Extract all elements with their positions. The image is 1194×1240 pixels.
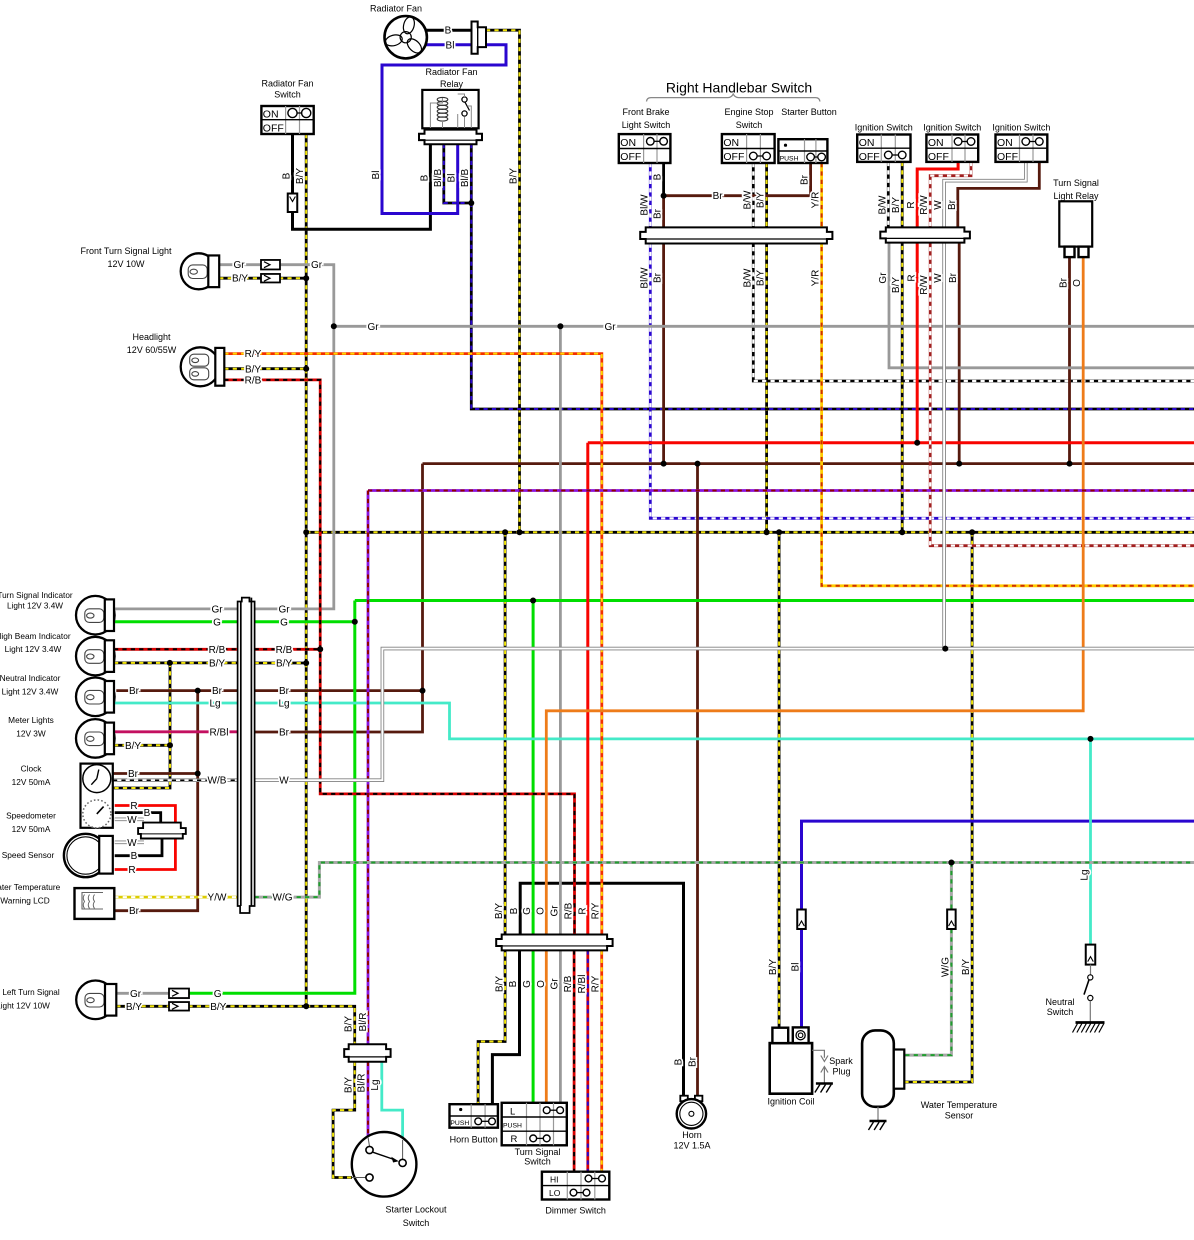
svg-text:Switch: Switch <box>274 90 301 100</box>
wire Bl/R vertical <box>367 491 370 1045</box>
svg-text:Bl: Bl <box>791 963 802 972</box>
wire Br neutral row left <box>116 689 237 692</box>
svg-text:Ignition Switch: Ignition Switch <box>992 123 1050 133</box>
wire W speed sensor <box>115 840 144 844</box>
wire Bl/R bus <box>368 489 1194 492</box>
connector bar ignition switch <box>880 227 970 242</box>
wire B/Y headlight <box>224 367 306 370</box>
junction dot <box>695 461 701 467</box>
wire Lg neutral switch <box>1089 739 1092 945</box>
svg-text:Turn Signal: Turn Signal <box>1053 178 1099 188</box>
wire W/G water temp lower <box>904 929 951 1055</box>
wire B/Y horn button feed <box>478 532 505 1104</box>
junction dot <box>303 529 309 535</box>
junction dot <box>661 193 667 199</box>
wire Bl/B bus <box>471 144 1194 409</box>
svg-text:Br: Br <box>653 272 664 283</box>
svg-text:Light Relay: Light Relay <box>1053 191 1099 201</box>
svg-text:Radiator Fan: Radiator Fan <box>370 4 422 14</box>
svg-text:B: B <box>674 1058 685 1065</box>
svg-text:Engine Stop: Engine Stop <box>724 107 773 117</box>
svg-text:Switch: Switch <box>403 1218 430 1228</box>
wire B/Y rear turn signal to connector <box>188 1006 354 1044</box>
switch starter button <box>778 139 827 163</box>
junction dot <box>530 598 536 604</box>
front turn signal bulb <box>181 253 217 289</box>
svg-text:R: R <box>128 865 135 876</box>
svg-text:B/Y: B/Y <box>276 659 292 670</box>
wire B/Y radiator fan to bus <box>486 30 520 532</box>
wire Y/W warning LCD <box>114 896 237 899</box>
svg-text:Switch: Switch <box>524 1157 551 1167</box>
svg-text:Horn Button: Horn Button <box>450 1135 498 1145</box>
svg-text:Bl/R: Bl/R <box>357 1074 368 1093</box>
svg-text:B: B <box>445 26 452 37</box>
svg-text:Br: Br <box>279 686 290 697</box>
svg-text:PUSH: PUSH <box>450 1120 469 1127</box>
svg-text:Gr: Gr <box>604 322 616 333</box>
brace right handlebar switch <box>647 94 820 102</box>
junction dot <box>303 1003 309 1009</box>
wire Bl fan loop <box>382 45 506 214</box>
wire Bl fan lead <box>425 43 473 46</box>
svg-text:Ignition Switch: Ignition Switch <box>923 123 981 133</box>
svg-text:W/G: W/G <box>940 957 951 977</box>
svg-text:B/Y: B/Y <box>495 976 506 992</box>
wire B/Y high beam left <box>114 662 238 665</box>
svg-text:Rear Left Turn Signal: Rear Left Turn Signal <box>0 988 60 997</box>
junction dot <box>468 200 474 206</box>
wire R/W ignition 2 <box>930 162 1194 546</box>
svg-text:B/Y: B/Y <box>344 1077 355 1093</box>
svg-text:R/Bl: R/Bl <box>210 727 229 738</box>
junction dot <box>303 275 309 281</box>
svg-text:OFF: OFF <box>859 151 880 163</box>
junction dot <box>420 688 426 694</box>
wire B speed sensor <box>115 839 162 856</box>
svg-text:W: W <box>279 776 289 787</box>
wire Gr bus <box>334 325 1194 328</box>
svg-text:R/B: R/B <box>563 975 574 992</box>
svg-text:B: B <box>420 174 431 181</box>
switch radiator fan <box>261 106 313 134</box>
inline connector front signal Gr <box>261 260 280 270</box>
junction dot <box>303 660 309 666</box>
svg-text:Light Switch: Light Switch <box>622 120 671 130</box>
wire Bl/B relay jumper <box>444 144 472 203</box>
svg-text:Y/W: Y/W <box>208 893 227 904</box>
svg-text:Gr: Gr <box>878 272 889 284</box>
svg-text:Bl/B: Bl/B <box>460 169 471 188</box>
svg-text:Front Brake: Front Brake <box>622 107 669 117</box>
svg-text:Switch: Switch <box>736 120 763 130</box>
svg-text:Bl: Bl <box>447 174 458 183</box>
wire O turn signal relay <box>546 257 1083 1103</box>
svg-text:ON: ON <box>997 137 1013 149</box>
wire B horn button feed <box>492 950 519 1104</box>
svg-text:Relay: Relay <box>440 79 464 89</box>
svg-text:W: W <box>933 200 944 210</box>
svg-text:Light 12V 3.4W: Light 12V 3.4W <box>7 602 63 611</box>
wire Y/R starter button <box>822 163 1194 586</box>
svg-text:Turn Signal Indicator: Turn Signal Indicator <box>0 591 73 600</box>
wire Gr front turn signal vertical <box>255 265 334 609</box>
junction dot <box>195 771 201 777</box>
wire R speedometer loop <box>115 806 176 870</box>
wire W speedometer <box>115 817 144 821</box>
svg-text:Speed Sensor: Speed Sensor <box>2 850 55 860</box>
svg-text:R/Y: R/Y <box>245 349 262 360</box>
svg-text:Water Temperature: Water Temperature <box>0 882 61 892</box>
wire B radiator switch <box>293 134 431 229</box>
svg-text:12V 50mA: 12V 50mA <box>12 777 51 787</box>
svg-text:W: W <box>933 273 944 283</box>
turn signal light relay <box>1059 201 1092 246</box>
wire Br right handlebar drop <box>662 244 665 464</box>
inline connector front signal B/Y <box>261 274 280 283</box>
svg-text:B/Y: B/Y <box>494 903 505 919</box>
svg-text:B/W: B/W <box>742 190 753 209</box>
svg-text:OFF: OFF <box>723 151 744 163</box>
wire B/Y rear turn signal stub <box>116 1005 170 1008</box>
svg-text:Ignition Switch: Ignition Switch <box>855 123 913 133</box>
relay radiator fan <box>422 90 478 128</box>
junction dot <box>764 529 770 535</box>
svg-text:Light 12V 10W: Light 12V 10W <box>0 1002 50 1011</box>
wire Gr meter stub <box>114 608 238 611</box>
svg-text:Neutral Indicator: Neutral Indicator <box>0 673 61 683</box>
junction dot <box>303 366 309 372</box>
wire B fan lead <box>425 29 472 32</box>
wire B/Y meter lights stub <box>114 744 170 747</box>
wire B/W engine stop <box>753 163 1194 381</box>
svg-text:Br: Br <box>948 272 959 283</box>
svg-text:R: R <box>906 274 917 281</box>
horn <box>680 1096 688 1102</box>
svg-text:Gr: Gr <box>549 905 560 917</box>
wire R/B dimmer <box>573 950 576 1171</box>
svg-text:Br: Br <box>713 191 724 202</box>
wire R/B high beam left <box>114 648 238 651</box>
svg-text:Horn: Horn <box>682 1130 702 1140</box>
junction dot <box>969 529 975 535</box>
junction dot <box>502 529 508 535</box>
svg-text:12V 60/55W: 12V 60/55W <box>127 345 177 355</box>
svg-text:12V 3W: 12V 3W <box>16 729 46 739</box>
svg-text:Br: Br <box>129 686 140 697</box>
svg-text:R/W: R/W <box>919 275 930 295</box>
svg-text:B/Y: B/Y <box>891 277 902 293</box>
wire R bus <box>588 441 1194 444</box>
ground water temp sensor <box>870 1120 887 1123</box>
switch front brake light <box>619 134 671 163</box>
high beam indicator bulb <box>76 637 115 676</box>
wire R main vertical <box>586 443 589 935</box>
svg-text:Light 12V 3.4W: Light 12V 3.4W <box>2 687 59 697</box>
wire R/Bl dimmer <box>586 950 589 1171</box>
svg-text:Gr: Gr <box>278 604 290 615</box>
ground spark plug <box>816 1082 833 1085</box>
wire Lg meter left <box>114 702 238 705</box>
svg-text:O: O <box>535 907 546 915</box>
svg-text:Bl/B: Bl/B <box>433 169 444 188</box>
svg-text:Gr: Gr <box>367 322 379 333</box>
svg-text:Front Turn Signal Light: Front Turn Signal Light <box>80 246 172 256</box>
svg-text:Bl: Bl <box>371 171 382 180</box>
speed sensor <box>64 834 107 877</box>
connector bar rear harness <box>344 1044 390 1062</box>
svg-text:B/Y: B/Y <box>232 274 248 285</box>
svg-text:Radiator Fan: Radiator Fan <box>261 79 313 89</box>
wire B/Y front turn signal to vertical <box>279 277 306 280</box>
svg-text:Starter Lockout: Starter Lockout <box>385 1205 447 1215</box>
junction dot <box>517 529 523 535</box>
svg-text:R/B: R/B <box>209 645 226 656</box>
connector speed sensor <box>138 823 186 839</box>
svg-text:R/Y: R/Y <box>591 975 602 992</box>
inline connector ignition coil Bl <box>797 910 806 930</box>
wire B/Y ignition coil feed <box>778 532 781 1028</box>
wire Bl ignition coil lower <box>800 929 803 1028</box>
svg-text:12V 10W: 12V 10W <box>107 259 145 269</box>
svg-text:Lg: Lg <box>370 1079 381 1090</box>
wire Bl/W bus <box>650 244 1194 519</box>
svg-text:ON: ON <box>620 137 636 149</box>
starter lockout switch <box>352 1132 417 1197</box>
svg-text:Dimmer Switch: Dimmer Switch <box>545 1206 606 1216</box>
wire R/Y dimmer <box>600 950 603 1171</box>
svg-text:OFF: OFF <box>263 122 284 134</box>
junction dot <box>557 323 563 329</box>
junction dot <box>948 860 954 866</box>
junction dot <box>317 646 323 652</box>
svg-text:Bl: Bl <box>446 40 455 51</box>
svg-text:G: G <box>214 989 222 1000</box>
svg-text:B: B <box>144 808 151 819</box>
wire Gr ignition <box>889 243 1194 368</box>
svg-text:Br: Br <box>1059 277 1070 288</box>
junction dot <box>1088 736 1094 742</box>
switch engine stop <box>722 134 775 163</box>
svg-text:W/G: W/G <box>273 893 293 904</box>
svg-text:Sensor: Sensor <box>945 1110 974 1120</box>
svg-text:Neutral: Neutral <box>1045 997 1074 1007</box>
svg-text:R/B: R/B <box>245 376 262 387</box>
svg-text:B/Y: B/Y <box>210 1002 226 1013</box>
svg-text:Switch: Switch <box>1047 1007 1074 1017</box>
switch ignition 2 <box>926 135 978 162</box>
svg-text:Br: Br <box>279 727 290 738</box>
junction dot <box>331 323 337 329</box>
wire Br meter vertical <box>255 464 423 732</box>
svg-text:ON: ON <box>723 137 739 149</box>
svg-text:R/B: R/B <box>564 902 575 919</box>
svg-text:Right Handlebar Switch: Right Handlebar Switch <box>666 80 812 96</box>
svg-text:R/Y: R/Y <box>591 902 602 919</box>
wire Lg bus <box>255 703 1194 739</box>
svg-text:Lg: Lg <box>209 699 220 710</box>
svg-text:R: R <box>578 907 589 914</box>
svg-text:G: G <box>522 980 533 988</box>
wire R/Bl meter lights <box>114 730 238 733</box>
svg-text:ON: ON <box>263 108 279 120</box>
wire R/Y headlight <box>224 354 602 935</box>
wire B/Y front turn signal stub <box>219 277 262 280</box>
svg-text:B/Y: B/Y <box>125 741 141 752</box>
ground neutral switch <box>1076 1021 1105 1024</box>
svg-text:LO: LO <box>549 1188 561 1198</box>
clock and speedometer <box>81 764 113 828</box>
svg-text:Light 12V 3.4W: Light 12V 3.4W <box>5 644 62 654</box>
wire B/W ignition 1 <box>887 162 890 228</box>
inline connector water temp W/G <box>947 910 956 930</box>
svg-text:O: O <box>536 980 547 988</box>
spark plug <box>812 1050 824 1083</box>
wire Br clock stub <box>113 772 198 775</box>
ignition coil <box>770 1043 812 1094</box>
wire G turn signal switch <box>532 601 535 1103</box>
svg-text:Starter Button: Starter Button <box>781 107 837 117</box>
svg-text:G: G <box>280 617 288 628</box>
svg-text:R: R <box>130 801 137 812</box>
svg-text:Radiator Fan: Radiator Fan <box>425 67 477 77</box>
wire Br front brake down <box>662 196 665 228</box>
junction dot <box>167 742 173 748</box>
svg-text:OFF: OFF <box>620 151 641 163</box>
svg-text:B/W: B/W <box>742 268 753 287</box>
svg-text:B/Y: B/Y <box>245 364 261 375</box>
wire B/Y starter lockout <box>333 1062 355 1178</box>
svg-text:Water Temperature: Water Temperature <box>921 1100 998 1110</box>
wire Bl/R starter lockout <box>367 1062 370 1137</box>
wire Bl ignition coil <box>802 821 1194 909</box>
turn signal indicator bulb <box>76 596 115 635</box>
svg-text:B/Y: B/Y <box>344 1016 355 1032</box>
svg-text:Speedometer: Speedometer <box>6 811 56 821</box>
svg-text:W: W <box>127 815 137 826</box>
svg-text:Spark: Spark <box>829 1056 853 1066</box>
radiator fan <box>384 16 427 59</box>
wire Br neutral row right <box>255 689 423 692</box>
connector radiator fan <box>472 22 487 54</box>
svg-text:Lg: Lg <box>1080 869 1091 880</box>
svg-text:Y/R: Y/R <box>811 192 822 209</box>
svg-text:L: L <box>510 1106 515 1117</box>
water temperature warning LCD <box>75 888 115 919</box>
svg-text:Plug: Plug <box>832 1067 850 1077</box>
junction dot <box>914 440 920 446</box>
svg-text:Br: Br <box>128 769 139 780</box>
headlight bulb <box>181 347 220 386</box>
switch ignition 3 <box>996 135 1048 162</box>
svg-text:PUSH: PUSH <box>503 1122 522 1129</box>
svg-text:Clock: Clock <box>21 764 43 774</box>
svg-text:Br: Br <box>212 686 223 697</box>
svg-text:Lg: Lg <box>278 699 289 710</box>
svg-text:Br: Br <box>947 199 958 210</box>
svg-text:B/W: B/W <box>877 195 888 214</box>
svg-text:B: B <box>508 980 519 987</box>
svg-text:ON: ON <box>859 137 875 149</box>
rear left turn signal bulb <box>76 981 115 1020</box>
svg-text:W/B: W/B <box>208 776 227 787</box>
svg-text:G: G <box>213 617 221 628</box>
wire Br front brake link <box>664 163 811 196</box>
svg-text:B: B <box>282 172 293 179</box>
svg-text:Gr: Gr <box>130 989 142 1000</box>
wire B/Y bus <box>306 531 1194 534</box>
wire B/Y meter drop <box>113 663 170 788</box>
svg-text:Ignition Coil: Ignition Coil <box>767 1097 814 1107</box>
svg-text:B: B <box>509 907 520 914</box>
svg-text:Bl/R: Bl/R <box>358 1013 369 1032</box>
connector bar main harness <box>496 935 612 951</box>
wire Gr rear turn signal stub <box>116 992 170 995</box>
switch ignition 1 <box>857 135 910 162</box>
wire B/Y water temp sensor feed <box>904 532 972 1082</box>
svg-text:Y/R: Y/R <box>811 270 822 287</box>
svg-text:Turn Signal: Turn Signal <box>515 1147 561 1157</box>
junction dot <box>352 619 358 625</box>
connector bar right handlebar <box>640 227 832 243</box>
meter lights bulb <box>76 719 115 758</box>
svg-text:Meter Lights: Meter Lights <box>8 715 54 725</box>
wire B/Y engine stop <box>765 163 768 532</box>
svg-text:Gr: Gr <box>233 260 245 271</box>
svg-text:PUSH: PUSH <box>780 155 799 162</box>
svg-text:B: B <box>653 173 664 180</box>
wire Gr turn signal switch <box>559 326 562 1103</box>
wire B/Y high beam right <box>255 662 307 665</box>
svg-text:Br: Br <box>687 1056 698 1067</box>
svg-text:B/Y: B/Y <box>756 192 767 208</box>
wire G bus <box>355 599 1194 602</box>
svg-text:HI: HI <box>550 1174 559 1184</box>
svg-text:Gr: Gr <box>211 604 223 615</box>
svg-text:ON: ON <box>928 137 944 149</box>
junction dot <box>1067 461 1073 467</box>
wire Br horn <box>696 464 699 1096</box>
svg-text:R/B: R/B <box>276 645 293 656</box>
svg-text:Br: Br <box>800 174 811 185</box>
wire W/G meter <box>255 863 1194 898</box>
inline connector rear signal Gr <box>169 989 189 999</box>
svg-text:B/Y: B/Y <box>961 959 972 975</box>
wire W/G water temp <box>950 863 953 910</box>
wire Lg starter lockout <box>382 1062 403 1140</box>
wire Bl/W front brake <box>649 163 652 227</box>
svg-text:Gr: Gr <box>550 978 561 990</box>
svg-text:OFF: OFF <box>928 151 949 163</box>
inline connector radiator switch B <box>288 194 298 213</box>
svg-text:Bl/W: Bl/W <box>639 194 650 216</box>
svg-text:OFF: OFF <box>997 151 1018 163</box>
junction dot <box>942 646 948 652</box>
svg-text:B/Y: B/Y <box>126 1002 142 1013</box>
wire Br ignition drop <box>958 243 961 464</box>
wire Br turn signal relay <box>1068 257 1071 464</box>
inline connector rear signal B/Y <box>169 1002 189 1011</box>
switch horn button <box>450 1104 498 1128</box>
svg-text:Bl/W: Bl/W <box>639 267 650 289</box>
svg-text:B/Y: B/Y <box>891 197 902 213</box>
wire R/B headlight <box>224 380 574 935</box>
wire Br ignition 3 <box>958 162 1040 228</box>
junction dot <box>899 529 905 535</box>
wire B front brake <box>662 163 665 196</box>
junction dot <box>195 688 201 694</box>
svg-text:G: G <box>522 907 533 915</box>
